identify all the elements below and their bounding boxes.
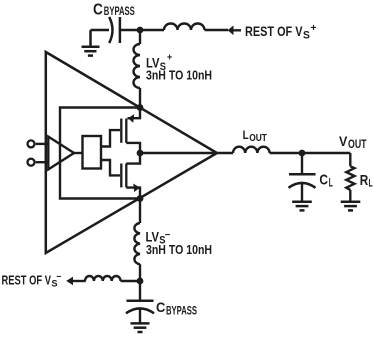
wire small triangle to box [74,152,83,154]
ground under CL [292,202,312,211]
wire corner down to resistor RL [349,153,351,166]
node top supply [137,27,144,34]
transistor bottom source lead [126,188,140,199]
transistor top source lead [128,108,141,119]
label CBYPASS top [93,2,135,19]
svg-text:C: C [156,299,165,315]
gate feed top [101,130,120,146]
label RL [360,173,373,190]
resistor RL [346,166,354,190]
wire output node to VOUT corner [302,152,350,154]
svg-text:REST OF V: REST OF V [2,273,52,287]
arrow to rest of VS+ [228,26,234,36]
wire inductor to output node [270,152,302,154]
gate feed bottom [101,160,120,175]
svg-text:3nH TO 10nH: 3nH TO 10nH [146,68,212,83]
node bypass bottom [137,278,144,285]
label CL [319,172,332,190]
svg-text:C: C [319,172,328,189]
svg-text:+: + [167,53,172,64]
svg-text:OUT: OUT [249,132,267,144]
svg-text:OUT: OUT [348,139,367,151]
transistor top source arrow [128,114,134,123]
wire top node down [139,30,141,44]
wire coil to arrow [73,280,86,282]
op-amp big triangle [46,52,217,253]
ground bottom [131,323,150,332]
wire inductor to branch node [139,264,141,281]
svg-text:L: L [243,128,249,142]
capacitor CL [289,174,316,188]
inductor LVS- [134,223,140,264]
label REST OF VS+ [245,22,317,41]
label CBYPASS bottom [156,299,197,317]
transistor bottom source arrow [133,184,140,193]
svg-text:REST OF V: REST OF V [245,23,303,39]
bias box [83,136,102,169]
label LVS+ [146,53,172,73]
ground under RL [341,202,361,211]
svg-text:S: S [303,29,310,41]
wire inductor to rail node [139,88,141,108]
transistor bottom gate bar [120,164,122,188]
wire bottom node down [139,199,141,224]
label REST OF VS- [2,272,62,290]
wire node to capacitor CBYPASS bottom [139,281,141,301]
label LOUT [243,128,268,144]
node output [299,150,306,157]
label LVS- [146,230,171,247]
svg-text:3nH TO 10nH: 3nH TO 10nH [146,242,212,257]
label VOUT [339,133,367,151]
arrow to rest of VS- [66,277,73,285]
wire inductor to arrow [205,29,242,32]
capacitor CBYPASS bottom [126,301,154,314]
wire branch node left [121,280,141,282]
wire resistor to ground [349,190,351,201]
svg-text:−: − [56,272,61,283]
svg-text:L: L [329,176,333,190]
inductor to rest of VS- [85,276,121,281]
wire cap to node [120,29,140,31]
ground top-left [82,31,100,56]
node bottom rail [137,195,144,202]
label 3nH TO 10nH top [146,68,212,83]
wire input top [36,143,49,145]
transistor bottom channel bar [125,164,127,188]
wire capacitor CBYPASS bottom to ground [139,309,141,323]
transistor bottom drain lead [126,153,140,164]
capacitor CBYPASS top [109,17,120,43]
output node [137,150,144,157]
inductor LVS+ [134,44,141,88]
output wire apex to inductor LOUT [140,152,233,154]
inductor LOUT [233,147,270,153]
transistor top channel bar [125,119,127,143]
svg-text:V: V [339,133,348,149]
wire capacitor CL to ground [301,183,303,201]
svg-text:BYPASS: BYPASS [166,306,197,318]
svg-text:BYPASS: BYPASS [104,6,135,18]
wire node to inductor top right [140,29,164,31]
wire input bottom [36,161,49,163]
svg-text:L: L [369,178,373,190]
svg-text:R: R [360,173,369,189]
svg-text:C: C [93,2,103,19]
svg-text:+: + [311,22,317,34]
transistor top gate bar [120,119,122,143]
inductor to rest of VS+ [164,24,205,31]
transistor top drain lead [126,143,140,153]
input terminal circles [28,140,35,147]
node top rail [137,104,144,111]
supply rail bracket [60,108,140,199]
wire node down to capacitor CL [301,153,303,174]
input stage small triangle [48,137,74,170]
label 3nH TO 10nH bottom [146,242,212,257]
svg-text:−: − [165,230,171,241]
wire ground to capacitor CBYPASS top [91,30,110,31]
